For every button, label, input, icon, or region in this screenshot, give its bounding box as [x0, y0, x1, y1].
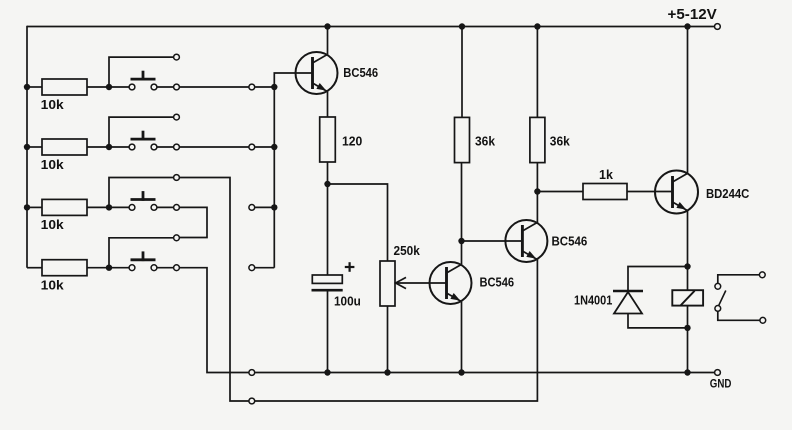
- wire diode D1 to relay bottom node: [628, 314, 688, 328]
- wire connector row 3 to base bus: [255, 206, 274, 208]
- wire switch S3 pin2 to pin3: [157, 206, 174, 208]
- relay contact terminal circle upper right: [759, 272, 765, 278]
- connector pin circle row 3: [249, 205, 255, 211]
- wire resistor R3 to node: [87, 206, 109, 208]
- wire row 3 upper terminal down to lower return rail: [180, 178, 249, 402]
- svg-text:BC546: BC546: [343, 66, 378, 80]
- resistor R5 120 (vertical): [320, 117, 336, 162]
- upper terminal circle row 2: [174, 114, 180, 120]
- wire resistor R4 to node: [87, 267, 109, 269]
- wire 1k branch: [537, 191, 583, 193]
- svg-text:100u: 100u: [334, 295, 361, 309]
- upper terminal circle row 1: [174, 54, 180, 60]
- svg-text:10k: 10k: [41, 98, 64, 112]
- svg-text:BC546: BC546: [480, 276, 515, 290]
- svg-text:1k: 1k: [599, 168, 613, 182]
- junction 36k R7 / 1k branch: [534, 188, 540, 194]
- connector pin circle row 1: [249, 84, 255, 90]
- wire row 4 switch down to ground rail: [180, 268, 249, 373]
- resistor R6 36k (vertical): [455, 117, 470, 162]
- relay contact terminal circle lower right: [760, 317, 766, 323]
- junction base bus row 3: [271, 204, 277, 210]
- upper terminal circle row 3: [174, 175, 180, 181]
- junction left rail row 3: [24, 204, 30, 210]
- relay contact fixed circle lower: [715, 306, 721, 312]
- wire relay bottom node to ground rail: [687, 328, 689, 373]
- terminal circle +5-12V: [715, 24, 721, 30]
- wire node row 4 up branch: [109, 238, 173, 268]
- svg-text:BC546: BC546: [552, 235, 588, 249]
- wire supply rail to 36k R7: [536, 27, 538, 118]
- ground rail (upper return wire): [255, 372, 714, 374]
- svg-text:10k: 10k: [41, 158, 64, 172]
- relay K1 coil diagonal: [681, 291, 695, 306]
- potentiometer P1 250k body: [380, 261, 395, 306]
- svg-text:BD244C: BD244C: [706, 187, 749, 201]
- push button S3 actuator: [131, 191, 156, 201]
- wire switch S4 pin2 to pin3: [157, 267, 174, 269]
- wire potentiometer bottom to ground rail: [387, 306, 389, 373]
- capacitor C1 negative plate: [312, 289, 343, 292]
- resistor R3 10k: [42, 199, 87, 215]
- relay contact arm: [719, 291, 726, 306]
- switch S2 pin3 circle: [174, 144, 180, 150]
- svg-text:120: 120: [342, 135, 362, 149]
- power rail +5-12V (top horizontal wire): [27, 26, 714, 28]
- junction relay top node: [684, 263, 690, 269]
- svg-text:+5-12V: +5-12V: [668, 6, 717, 23]
- transistor Q2 BC546: [430, 262, 472, 304]
- junction supply rail Q4: [684, 23, 690, 29]
- wire connector row 2 to base bus: [255, 146, 274, 148]
- transistor Q1 BC546: [296, 52, 338, 94]
- junction ground rail relay: [684, 369, 690, 375]
- wire switch S2 pin2 to pin3: [157, 146, 174, 148]
- wire resistor 120 to node A: [327, 162, 329, 184]
- wire node to switch S1 pin1: [109, 86, 129, 88]
- wire switch row 2 to connector pin: [180, 146, 249, 148]
- wire resistor R1 to node: [87, 86, 109, 88]
- wire node A to potentiometer top: [328, 184, 388, 261]
- transistor Q4 BD244C: [655, 171, 698, 214]
- left vertical supply rail: [26, 26, 28, 268]
- switch S1 pin2 circle: [151, 84, 157, 90]
- wire Q3 base to Q2 collector: [462, 240, 523, 242]
- push button S4 actuator: [131, 251, 156, 261]
- base bus vertical wire: [274, 73, 311, 268]
- svg-text:10k: 10k: [41, 218, 64, 232]
- relay contact fixed circle upper: [715, 283, 721, 289]
- junction base bus row 2: [271, 144, 277, 150]
- wire relay top node to diode D1: [628, 267, 688, 291]
- junction Q2 collector Q3 base: [458, 238, 464, 244]
- wire supply rail to 36k R6: [461, 27, 463, 118]
- wire Q2 emitter to ground rail: [461, 302, 463, 373]
- connector pin circle ground rail: [249, 370, 255, 376]
- junction left rail row 2: [24, 144, 30, 150]
- wire rail to resistor R4: [27, 267, 42, 269]
- upper terminal circle row 4: [174, 235, 180, 241]
- connector pin circle lower return rail: [249, 398, 255, 404]
- switch S1 pin1 circle: [129, 84, 135, 90]
- switch S3 pin2 circle: [151, 205, 157, 211]
- capacitor C1 plus sign: [345, 262, 355, 272]
- svg-text:250k: 250k: [394, 244, 420, 258]
- wire node to switch S3 pin1: [109, 206, 129, 208]
- wire 1k to Q4 base: [627, 191, 673, 193]
- junction node A: [324, 181, 330, 187]
- wire connector row 4 to base bus: [255, 267, 274, 269]
- junction node row 4: [106, 265, 112, 271]
- wire potentiometer wiper to Q2 base: [429, 282, 447, 284]
- junction relay bottom node: [684, 325, 690, 331]
- wire node to switch S4 pin1: [109, 267, 129, 269]
- wire Q2 collector to 36k R6: [461, 163, 463, 265]
- wire switch S1 pin2 to pin3: [157, 86, 174, 88]
- wire node A to capacitor C1: [327, 184, 329, 275]
- junction ground rail capacitor: [324, 369, 330, 375]
- svg-text:36k: 36k: [550, 135, 570, 149]
- svg-text:1N4001: 1N4001: [574, 294, 612, 308]
- junction ground rail Q2 emitter: [458, 369, 464, 375]
- junction base bus row 1: [271, 84, 277, 90]
- switch S4 pin1 circle: [129, 265, 135, 271]
- switch S2 pin1 circle: [129, 144, 135, 150]
- wire node row 2 up branch: [109, 117, 173, 147]
- junction node row 2: [106, 144, 112, 150]
- wire switch row 1 to connector pin: [180, 86, 249, 88]
- wire relay contact upper to terminal: [718, 275, 760, 284]
- wire relay coil to bottom node: [687, 306, 689, 328]
- junction supply rail 36k R7: [534, 23, 540, 29]
- wire Q1 emitter to resistor 120: [327, 92, 329, 117]
- switch S2 pin2 circle: [151, 144, 157, 150]
- resistor R4 10k: [42, 260, 87, 276]
- wire Q1 collector to supply rail: [327, 27, 329, 55]
- diode D1 1N4001 triangle: [614, 292, 642, 314]
- resistor R8 1k: [583, 184, 627, 200]
- resistor R7 36k (vertical): [530, 117, 545, 162]
- junction node row 1: [106, 84, 112, 90]
- switch S3 pin1 circle: [129, 205, 135, 211]
- junction supply rail 36k R6: [459, 23, 465, 29]
- junction ground rail potentiometer: [384, 369, 390, 375]
- push button S2 actuator: [131, 131, 156, 141]
- capacitor C1 positive plate: [312, 275, 342, 283]
- wire rail to resistor R3: [27, 206, 42, 208]
- wire Q4 emitter to relay node: [687, 210, 689, 266]
- wire 36k R7 to Q3 collector: [536, 163, 538, 223]
- wire rail to resistor R1: [27, 86, 42, 88]
- svg-text:GND: GND: [710, 377, 732, 391]
- wire node to switch S2 pin1: [109, 146, 129, 148]
- wire rail to resistor R2: [27, 146, 42, 148]
- relay K1 coil: [672, 290, 703, 305]
- resistor R1 10k: [42, 79, 87, 95]
- switch S4 pin3 circle: [174, 265, 180, 271]
- wire node row 1 up branch: [109, 57, 173, 87]
- connector pin circle row 4: [249, 265, 255, 271]
- potentiometer wiper arrow: [396, 277, 429, 288]
- diode D1 1N4001 cathode bar: [613, 290, 643, 292]
- wire Q3 emitter to lower return rail: [255, 260, 538, 401]
- switch S4 pin2 circle: [151, 265, 157, 271]
- svg-text:36k: 36k: [475, 135, 495, 149]
- wire resistor R2 to node: [87, 146, 109, 148]
- junction left rail row 1: [24, 84, 30, 90]
- wire relay contact lower to terminal: [718, 311, 760, 320]
- wire row 3 switch to row 4 upper terminal (bridge): [180, 207, 207, 237]
- switch S3 pin3 circle: [174, 205, 180, 211]
- wire relay top node to relay coil: [687, 267, 689, 291]
- wire capacitor C1 to ground rail: [327, 292, 329, 373]
- push button S1 actuator: [131, 71, 156, 81]
- wire node row 3 up branch: [109, 178, 173, 208]
- wire connector row 1 to base bus: [255, 86, 274, 88]
- transistor Q3 BC546: [505, 220, 547, 262]
- terminal circle GND: [715, 370, 721, 376]
- connector pin circle row 2: [249, 144, 255, 150]
- junction supply rail Q1 collector: [324, 23, 330, 29]
- resistor R2 10k: [42, 139, 87, 155]
- switch S1 pin3 circle: [174, 84, 180, 90]
- wire Q4 collector to supply rail: [687, 27, 689, 174]
- junction node row 3: [106, 204, 112, 210]
- svg-text:10k: 10k: [41, 279, 64, 293]
